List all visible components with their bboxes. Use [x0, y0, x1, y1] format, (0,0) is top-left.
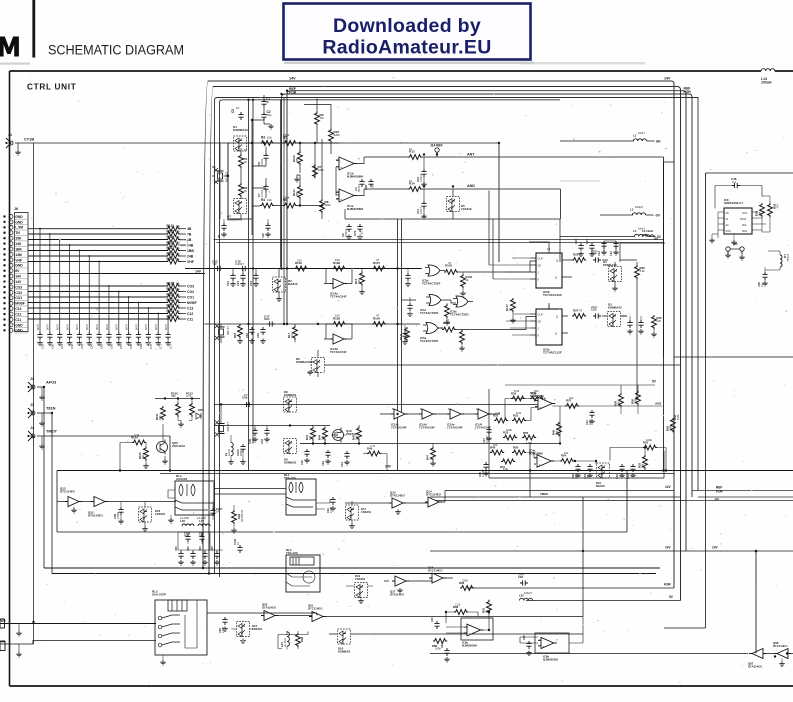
ground C58 — [118, 519, 124, 524]
wire X3 row — [214, 405, 221, 434]
label IC5b FF — [543, 290, 562, 297]
resistor R43 10k — [311, 427, 316, 441]
resistor R27 47 — [572, 314, 586, 319]
capacitor C23 0.0047 — [578, 243, 583, 251]
resistor R6 220k — [283, 203, 297, 208]
svg-text:L4-38A: L4-38A — [226, 326, 230, 335]
wire FF1 out — [568, 260, 637, 316]
svg-text:K: K — [538, 278, 540, 282]
ground W5 left — [725, 253, 731, 258]
resistor R115 — [166, 259, 180, 264]
inductor L13 — [761, 69, 775, 71]
wire Q3 Q1 — [275, 497, 583, 617]
svg-text:SCL: SCL — [742, 224, 747, 227]
svg-text:14M: 14M — [15, 253, 22, 257]
resistor R4 10k — [260, 203, 274, 208]
resistor R8 220k — [320, 199, 325, 213]
svg-text:1A: 1A — [176, 235, 180, 239]
svg-text:R55: R55 — [523, 431, 529, 435]
svg-text:0.0047: 0.0047 — [235, 262, 244, 266]
resistor R88 100k — [433, 639, 447, 644]
svg-text:C64: C64 — [90, 344, 94, 349]
capacitor C87 — [444, 648, 449, 656]
svg-text:88k: 88k — [295, 191, 299, 196]
svg-text:0047: 0047 — [164, 323, 168, 330]
wire osc1 to gate — [386, 268, 422, 270]
wire opamp fb — [304, 99, 339, 220]
capacitor C13 33p — [253, 273, 258, 281]
svg-text:NJM4558M: NJM4558M — [347, 207, 363, 211]
bus wire 8V wrap — [209, 87, 681, 601]
capacitor C107 1P — [210, 508, 215, 516]
wire gate2 out — [446, 300, 456, 303]
resistor R50 5.6k — [512, 450, 526, 455]
svg-text:5.6k: 5.6k — [514, 389, 520, 393]
capacitor C15 33p — [240, 273, 245, 281]
label RL2 — [286, 548, 299, 555]
wire IC1a out — [357, 189, 408, 196]
diode D6 KSMBA4SR — [312, 358, 325, 373]
resistor R33 5.6k — [512, 418, 526, 423]
svg-text:KSMBA4SR: KSMBA4SR — [296, 360, 313, 364]
bus pair REF drop — [281, 98, 285, 325]
ground C51 — [86, 341, 92, 346]
wire Q7 Q8 — [763, 653, 793, 655]
gate IC5c — [426, 294, 446, 305]
capacitor C5 — [238, 112, 243, 120]
wire IC6a in/out — [446, 623, 489, 633]
capacitor C79 10 — [357, 224, 362, 232]
svg-text:J3: J3 — [30, 403, 34, 407]
svg-text:2.2uH: 2.2uH — [227, 449, 231, 456]
diode D2 MA810 — [273, 277, 286, 292]
svg-text:G5A-237P: G5A-237P — [152, 593, 166, 597]
resistor R139 100 — [332, 322, 346, 327]
svg-text:1P: 1P — [244, 393, 248, 397]
wire IC4 section box — [489, 389, 664, 478]
ground D17 — [349, 524, 355, 529]
junction dots cluster A — [251, 142, 253, 144]
svg-text:TN: TN — [15, 231, 20, 235]
wire row 500 — [430, 500, 686, 502]
svg-text:5.6k: 5.6k — [516, 411, 522, 415]
wire junction dots — [252, 267, 254, 269]
wire row R112 — [28, 307, 166, 309]
ground Q15 — [395, 510, 401, 515]
svg-text:1A: 1A — [176, 292, 180, 296]
wire J4 drop — [169, 436, 171, 471]
svg-text:LA-238: LA-238 — [180, 516, 189, 520]
diode D22 — [196, 413, 201, 419]
wire 14V main bus — [57, 470, 793, 472]
resistor R56b — [232, 510, 237, 524]
ground C13 — [253, 282, 259, 287]
svg-text:10k: 10k — [776, 204, 780, 209]
diode D19 1SS301 — [355, 583, 368, 598]
svg-text:TC74ACT32F: TC74ACT32F — [422, 282, 441, 286]
inductor L20 100uH — [519, 598, 532, 600]
svg-text:C72: C72 — [168, 344, 172, 349]
svg-text:C13: C13 — [597, 251, 601, 256]
wire RL1 to Q15 — [345, 502, 389, 504]
wire osc A out — [266, 143, 323, 206]
resistor R52 10k — [643, 455, 648, 469]
capacitor C59 0.047 — [165, 332, 170, 340]
resistor R2 — [239, 183, 244, 197]
svg-text:10k: 10k — [267, 198, 272, 202]
scan smudge under banner — [284, 62, 534, 65]
svg-text:220k: 220k — [325, 203, 332, 207]
svg-text:14V: 14V — [195, 269, 202, 273]
svg-text:+: + — [341, 165, 343, 169]
svg-text:DTC114EU: DTC114EU — [426, 493, 441, 497]
wire W2 — [0, 623, 156, 625]
svg-text:100uH: 100uH — [524, 591, 532, 595]
svg-text:0047: 0047 — [154, 323, 158, 330]
svg-text:1A: 1A — [176, 246, 180, 250]
wire cluster A stubs — [228, 120, 300, 219]
capacitor C49 0.047 — [67, 332, 72, 340]
svg-text:1SS301: 1SS301 — [155, 512, 166, 516]
wire R154 left — [120, 443, 132, 471]
svg-text:0047: 0047 — [144, 323, 148, 330]
capacitor C39 0.0047 — [483, 462, 488, 470]
wire row R119 — [28, 239, 166, 241]
svg-text:24B: 24B — [187, 254, 194, 258]
svg-text:R120: R120 — [167, 229, 175, 233]
capacitor C60 33p — [178, 551, 183, 559]
wire drop col 7 — [98, 262, 100, 333]
inductor L26 — [182, 524, 194, 526]
capacitor C54 0.047 — [116, 332, 121, 340]
diode D7 KSMBA43 — [234, 199, 247, 214]
capacitor C58 0.068 — [118, 507, 123, 515]
ground R56b — [231, 528, 237, 533]
svg-text:0.0047: 0.0047 — [344, 228, 348, 237]
resistor R101 88k — [298, 185, 303, 199]
svg-text:75p: 75p — [184, 535, 189, 538]
wire J1 branch down — [33, 143, 35, 644]
wire J3 drop — [51, 413, 53, 574]
wire inverter row — [380, 413, 500, 415]
svg-text:KSMBA43: KSMBA43 — [233, 128, 248, 132]
coil L2 16uH — [633, 139, 646, 141]
svg-text:C46: C46 — [431, 617, 434, 622]
diode D3 KSMBA43 — [608, 312, 621, 327]
svg-text:0.001: 0.001 — [260, 158, 264, 166]
diode D10 BA? — [597, 463, 610, 478]
diode D17 1SS301 — [346, 505, 359, 520]
capacitor C61 0.047 — [330, 497, 335, 505]
wire R108 end — [180, 285, 186, 287]
wire row R117 — [28, 250, 166, 252]
svg-text:TC74AC04F: TC74AC04F — [391, 425, 407, 429]
wire 14V second — [160, 473, 674, 475]
svg-text:10k: 10k — [569, 396, 574, 400]
bus inner pair top — [215, 98, 699, 578]
relay RL3 contacts — [158, 615, 180, 620]
ground C11 — [421, 214, 427, 219]
svg-text:C12: C12 — [15, 312, 21, 316]
gate IC5a — [423, 322, 443, 333]
svg-text:220k: 220k — [318, 168, 325, 172]
wire drop col 10 — [128, 297, 130, 332]
wire FF2 inputs — [506, 314, 530, 335]
svg-text:C67: C67 — [119, 344, 123, 349]
capacitor C48 0.047 — [57, 332, 62, 340]
wire R119 end — [180, 239, 186, 241]
svg-text:C32: C32 — [300, 460, 304, 465]
svg-text:SDA: SDA — [742, 230, 747, 233]
ground D15 — [240, 639, 246, 644]
svg-text:3p: 3p — [266, 100, 270, 104]
wire drop col 12 — [147, 308, 149, 332]
svg-text:DTA114EU: DTA114EU — [88, 514, 103, 518]
ground bias — [178, 422, 184, 427]
svg-text:15K: 15K — [15, 237, 22, 241]
capacitor C51 33p — [264, 428, 269, 436]
label Q19 — [346, 429, 357, 436]
svg-text:C60: C60 — [50, 344, 54, 349]
svg-text:C34: C34 — [340, 462, 344, 467]
label D15 — [252, 624, 263, 631]
svg-text:-9V: -9V — [655, 214, 661, 218]
svg-text:CLR: CLR — [538, 257, 543, 261]
svg-text:0047: 0047 — [85, 323, 89, 330]
ground J3 — [39, 421, 45, 426]
label RL4 — [176, 474, 187, 481]
svg-text:AFO3: AFO3 — [46, 380, 57, 385]
ground C57 — [146, 341, 152, 346]
resistor R53 100k — [643, 445, 657, 450]
svg-text:14V: 14V — [15, 275, 22, 279]
capacitor C24 220p — [593, 257, 601, 262]
svg-text:MA810: MA810 — [596, 484, 605, 488]
svg-text:TC74AC112F: TC74AC112F — [543, 351, 562, 355]
wire row R110 — [28, 296, 166, 298]
resistor R112 — [166, 306, 180, 311]
svg-text:1A: 1A — [176, 251, 180, 255]
label IC14a — [330, 292, 347, 299]
transistor Q13 DTC114EV — [65, 497, 82, 507]
header divider bar — [32, 0, 35, 58]
wire right mid caps — [604, 241, 616, 251]
wire 5V IC4 — [505, 385, 655, 393]
svg-text:SH: SH — [656, 140, 661, 144]
label Q12 — [88, 511, 103, 518]
flip-flop IC5a TC74AC112F — [536, 309, 562, 345]
capacitor C46b — [434, 621, 439, 629]
capacitor C56 0.047 — [136, 332, 141, 340]
svg-text:10k: 10k — [321, 435, 325, 440]
wire row R116 — [28, 255, 166, 257]
wire TMR2 row — [430, 496, 681, 498]
svg-text:CT1B: CT1B — [24, 137, 34, 142]
svg-text:R3: R3 — [261, 136, 265, 140]
capacitor C25 220p — [593, 313, 601, 318]
svg-text:J14 REF: J14 REF — [430, 144, 443, 148]
svg-text:Q: Q — [555, 332, 557, 336]
svg-text:C49: C49 — [248, 439, 252, 444]
svg-text:AG5243: AG5243 — [176, 477, 187, 481]
ground C53 — [106, 341, 112, 346]
svg-text:16: 16 — [547, 247, 551, 251]
resistor R147 1k — [511, 298, 516, 312]
wire IC6a fb — [446, 600, 489, 624]
label R150 390 — [171, 392, 178, 396]
ground IC8 right — [731, 240, 737, 245]
wire IC4b down — [529, 444, 531, 498]
diode D5 1SS319 — [447, 197, 460, 212]
ICOM logo letter M — [0, 37, 19, 57]
label IC5b — [422, 279, 441, 286]
capacitor C19 v — [260, 327, 265, 335]
wire J4 — [37, 435, 170, 437]
resistor R7 220k — [313, 164, 318, 178]
wire opamp bottom rail — [345, 209, 560, 262]
svg-text:0.047: 0.047 — [419, 207, 423, 214]
svg-text:KSMBAS: KSMBAS — [284, 460, 296, 464]
ground C56 — [136, 341, 142, 346]
svg-text:NJM2903M: NJM2903M — [462, 643, 477, 647]
label IC4a — [529, 449, 543, 456]
ground Q17 — [397, 588, 403, 593]
svg-text:2.2k: 2.2k — [495, 411, 501, 415]
svg-text:0.068: 0.068 — [116, 512, 120, 519]
svg-text:0.047: 0.047 — [357, 184, 361, 191]
svg-text:MA810: MA810 — [288, 282, 298, 286]
svg-text:T3S-12G: T3S-12G — [284, 476, 297, 480]
transistor Q19 2SK519 — [332, 428, 344, 443]
svg-text:AND: AND — [467, 184, 475, 188]
transistor Q8 DTC114EU — [774, 649, 791, 659]
resistor R152 — [190, 403, 195, 417]
svg-text:0.0047: 0.0047 — [486, 435, 489, 443]
svg-text:1A: 1A — [176, 303, 180, 307]
schematic top border 14V bus — [10, 70, 762, 72]
svg-text:1A: 1A — [176, 257, 180, 261]
capacitor C52 0.047 — [97, 332, 102, 340]
svg-text:R26: R26 — [573, 253, 579, 257]
svg-text:R109: R109 — [167, 287, 175, 291]
wire R110 end — [180, 296, 186, 298]
resistor R48 10k — [490, 450, 504, 455]
svg-text:4B: 4B — [187, 227, 192, 231]
svg-text:C13: C13 — [187, 306, 193, 310]
resistor R15 100 — [360, 272, 365, 286]
svg-text:0047: 0047 — [65, 323, 69, 330]
svg-text:15: 15 — [244, 148, 248, 152]
relay RL1 T3S-12G — [286, 479, 316, 515]
capacitor C66 82p — [190, 551, 195, 559]
svg-text:T81N: T81N — [46, 406, 56, 411]
svg-text:+: + — [341, 197, 343, 201]
wire RL4 in — [168, 490, 175, 498]
label D2 MA810 — [288, 279, 298, 286]
svg-text:GND: GND — [15, 215, 23, 219]
svg-text:10k: 10k — [555, 430, 559, 435]
ground C10 — [421, 182, 427, 187]
svg-text:CO3: CO3 — [187, 284, 194, 288]
svg-text:L5: L5 — [633, 229, 637, 233]
wire J1 to mixer — [15, 142, 499, 144]
wire gates col2 — [398, 269, 417, 325]
svg-text:TMR2: TMR2 — [540, 492, 548, 496]
capacitor C19b — [627, 320, 632, 328]
label IC8 — [724, 198, 744, 205]
ground J2 — [39, 395, 45, 400]
svg-text:390: 390 — [171, 394, 176, 398]
wire row 14V long — [28, 273, 205, 275]
resistor R59 100k — [636, 391, 641, 405]
diode D9 KSMBAS — [284, 439, 297, 454]
capacitor C53 0.047 — [106, 332, 111, 340]
wire gate4 to FF2 — [438, 317, 536, 330]
label D9 — [284, 458, 296, 465]
svg-text:1BB: 1BB — [187, 249, 194, 253]
svg-text:KSMBA43: KSMBA43 — [603, 263, 617, 267]
svg-text:LF-35A: LF-35A — [283, 638, 287, 647]
label D6 — [296, 357, 313, 364]
svg-text:CO2: CO2 — [15, 291, 22, 295]
op-amp IC4a NJM558M — [534, 455, 554, 467]
svg-text:TC74AC04F: TC74AC04F — [330, 295, 347, 299]
svg-text:1A: 1A — [176, 229, 180, 233]
svg-text:100: 100 — [335, 258, 340, 262]
svg-text:4.7k: 4.7k — [370, 444, 376, 448]
svg-text:GND: GND — [15, 220, 23, 224]
svg-text:1A: 1A — [176, 287, 180, 291]
svg-text:0047: 0047 — [105, 323, 109, 330]
ground C50 — [77, 341, 83, 346]
svg-text:14V: 14V — [385, 465, 392, 469]
resistor R32 100k — [503, 435, 517, 440]
wire R121 end — [180, 228, 186, 230]
capacitor C65 — [214, 551, 219, 559]
svg-text:DTC114EV: DTC114EV — [60, 490, 75, 494]
inductor L27 — [198, 524, 210, 526]
transistor Q14 DTC114EU — [425, 497, 442, 507]
svg-text:C66: C66 — [109, 344, 113, 349]
capacitor C55 0.047 — [126, 332, 131, 340]
svg-text:14V: 14V — [15, 280, 22, 284]
wire R53 — [610, 448, 666, 471]
ground C48 — [57, 341, 63, 346]
svg-text:KSMBAS: KSMBAS — [284, 393, 296, 397]
svg-text:0047: 0047 — [115, 323, 119, 330]
relay RL4 AG5243 — [175, 481, 214, 515]
svg-text:1SS301: 1SS301 — [252, 627, 263, 631]
svg-text:C5: C5 — [231, 109, 235, 113]
svg-text:C51: C51 — [260, 439, 264, 444]
capacitor C7 0.001 — [263, 184, 268, 192]
resistor R13 1k — [408, 155, 422, 160]
svg-text:C11: C11 — [15, 318, 21, 322]
resistor R16 820k — [329, 129, 334, 143]
resistor R5 220k — [283, 141, 297, 146]
svg-text:DTA114EU: DTA114EU — [262, 605, 276, 609]
wire J2 — [37, 386, 44, 388]
svg-text:REF: REF — [264, 317, 270, 321]
svg-text:1.5M: 1.5M — [526, 441, 533, 445]
resistor R113 — [166, 311, 180, 316]
svg-text:TC74AC04F: TC74AC04F — [419, 425, 435, 429]
label Q15 — [390, 491, 405, 498]
wire row R114 — [28, 318, 166, 320]
scan noise speckle — [264, 166, 266, 169]
capacitor C63 43p — [202, 551, 207, 559]
op-amp IC6b NJM2903M — [535, 633, 569, 653]
